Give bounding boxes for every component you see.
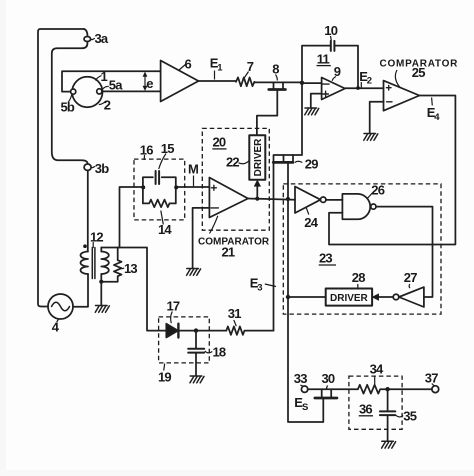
transformer 12 core <box>92 248 95 279</box>
leader 35 <box>396 415 403 417</box>
leader comparator 21 <box>210 216 218 234</box>
wire E3 bus: 29 gate down to comparator 21 output row, driver 28 output, transistor 30 gate <box>288 164 323 422</box>
wire transformer primary bottom to AC source 4 <box>73 274 88 307</box>
leader M <box>193 176 195 187</box>
svg-text:DRIVER: DRIVER <box>253 138 264 177</box>
leader 30 <box>326 386 329 390</box>
resistor 14 <box>143 200 176 208</box>
svg-text:e: e <box>146 76 153 91</box>
leader 1 <box>96 76 102 81</box>
leader 19 <box>164 364 165 371</box>
terminal 37 <box>432 386 439 393</box>
wire inverter 24 to NAND 26 input <box>326 199 343 201</box>
leader 34 <box>374 376 376 385</box>
comparator 21 <box>209 178 248 218</box>
leader comparator 25 <box>395 70 400 88</box>
capacitor 18 <box>195 331 197 348</box>
leader 37 <box>432 384 435 387</box>
svg-text:20: 20 <box>213 135 226 150</box>
leader 4 <box>57 319 59 322</box>
dashed box 23 <box>283 184 441 314</box>
wire hook from 3a down inner bus to 3b <box>52 42 88 164</box>
ground below comparator 25 <box>364 134 378 141</box>
electrode 5a <box>97 89 102 94</box>
resistor 7 <box>236 77 254 86</box>
svg-text:23: 23 <box>319 251 332 266</box>
svg-text:4: 4 <box>434 112 440 123</box>
leader 12 <box>92 242 94 248</box>
node junction dot RC right <box>174 185 178 189</box>
leader 18 <box>205 351 213 353</box>
svg-text:25: 25 <box>412 65 425 80</box>
svg-text:15: 15 <box>161 141 174 156</box>
leader 3a <box>91 38 95 39</box>
leader 24 <box>306 208 309 215</box>
driver 28 box <box>326 289 372 306</box>
leader 26 <box>367 193 373 199</box>
leader 17 <box>171 312 173 324</box>
diode 17 <box>166 324 178 338</box>
leader 33 <box>300 385 303 386</box>
svg-text:16: 16 <box>140 143 153 158</box>
svg-text:M: M <box>188 162 198 177</box>
wire top stub into terminal 3a <box>84 29 88 37</box>
ground below capacitor 35 <box>382 441 396 448</box>
dashed box 16 <box>134 159 185 220</box>
leader 5b <box>68 95 72 103</box>
svg-text:11: 11 <box>317 52 330 67</box>
svg-text:31: 31 <box>228 306 241 321</box>
svg-text:DRIVER: DRIVER <box>330 293 369 304</box>
svg-text:30: 30 <box>322 371 335 386</box>
svg-text:9: 9 <box>334 64 341 79</box>
leader 10 <box>330 36 333 41</box>
op-amp 9 <box>322 78 345 100</box>
wire comparator 25 output E4 down to NAND 26 lower input <box>329 96 455 245</box>
driver 22 box <box>249 135 265 180</box>
svg-text:8: 8 <box>272 62 279 77</box>
wire inverter 27 output to driver 28 with arrow <box>378 296 394 298</box>
leader 3b <box>91 166 95 167</box>
svg-text:22: 22 <box>226 155 239 170</box>
leader 14 <box>161 211 164 225</box>
wire transistor 8 gate to driver 22 <box>257 91 277 135</box>
svg-text:S: S <box>302 402 308 413</box>
node junction dot driver 22 input <box>255 197 259 201</box>
leader E4 <box>431 98 434 106</box>
svg-text:34: 34 <box>370 362 384 377</box>
capacitor 10 feedback loop wires <box>302 46 358 88</box>
AC source 4 <box>48 294 73 319</box>
wire driver 22 input stem with arrow <box>256 184 258 199</box>
capacitor 10 <box>331 41 335 51</box>
svg-text:36: 36 <box>359 402 372 417</box>
wire from 3b down to transformer primary <box>87 171 89 252</box>
dashed box 36 <box>349 376 402 429</box>
leader 13 <box>120 268 124 269</box>
svg-text:3a: 3a <box>95 31 109 46</box>
wire M node to comparator 21 plus input <box>176 186 210 188</box>
terminal 3a <box>84 37 91 42</box>
wire RC left node to transformer secondary top <box>120 187 143 248</box>
e signal arrow <box>144 76 146 88</box>
inverter 27 <box>399 287 424 307</box>
svg-text:10: 10 <box>324 23 337 38</box>
svg-text:3b: 3b <box>95 161 109 176</box>
node junction dot driver 28 output / E3 <box>286 295 290 299</box>
RC network box 14: rails <box>143 177 176 203</box>
leader 22 <box>239 161 250 164</box>
transformer 12 primary winding <box>81 252 89 275</box>
svg-text:5a: 5a <box>109 78 123 93</box>
ground below capacitor 18 <box>190 376 204 383</box>
wire secondary bottom to ground <box>100 282 102 305</box>
leader 15 <box>159 154 166 170</box>
svg-text:17: 17 <box>167 299 180 314</box>
ground below comparator 21 <box>187 269 201 276</box>
svg-text:6: 6 <box>185 57 192 72</box>
svg-text:29: 29 <box>305 157 318 172</box>
wire left bus from 3a top to source 4 <box>38 29 84 307</box>
wire driver 28 output to E3 bus <box>288 296 326 298</box>
NAND gate 26 <box>342 194 370 219</box>
transistor 29 <box>284 155 294 161</box>
leader 7 <box>245 72 249 78</box>
svg-text:37: 37 <box>425 371 438 386</box>
wire right electrode to amp 6 lower input <box>102 90 161 92</box>
svg-text:14: 14 <box>158 222 172 237</box>
wire transformer secondary row to diode drop <box>101 248 166 331</box>
wire comparator 21 minus input to ground <box>193 208 210 268</box>
svg-text:21: 21 <box>222 245 235 260</box>
wire comparator 25 minus input to ground <box>370 102 384 133</box>
svg-text:12: 12 <box>90 230 103 245</box>
svg-text:33: 33 <box>294 371 307 386</box>
leader 6 <box>179 64 187 71</box>
wire terminal 33 through transistor 30 to resistor 34 <box>308 388 358 390</box>
wire op-amp 9 plus input to ground <box>311 94 322 108</box>
leader 5a <box>102 86 109 90</box>
node E2 junction dot <box>356 86 360 90</box>
leader E2 <box>360 82 362 88</box>
node A junction dot <box>300 81 304 85</box>
svg-text:18: 18 <box>213 345 226 360</box>
leader E3 <box>265 284 276 287</box>
op-amp 6 <box>161 61 199 102</box>
transistor 30 <box>322 389 332 396</box>
wire node A to op-amp 9 <box>302 82 322 84</box>
resistor 31 <box>226 326 273 334</box>
transformer 12 secondary leads <box>100 248 102 282</box>
svg-text:35: 35 <box>403 409 416 424</box>
inverter 24 <box>295 187 321 214</box>
electrode 5b <box>71 89 76 94</box>
wire comparator 21 output to inverter 24 <box>248 199 295 200</box>
node junction dot diode output <box>194 328 198 332</box>
leader 9 <box>332 77 336 81</box>
svg-text:19: 19 <box>158 370 171 385</box>
svg-text:13: 13 <box>124 261 137 276</box>
node junction dot comparator 21 output / E3 <box>286 197 290 201</box>
transformer 12 secondary winding <box>101 252 109 275</box>
ground below transformer 12 <box>95 306 109 313</box>
sensor loop wire left electrode to amp 6 upper input <box>62 71 161 91</box>
svg-text:3: 3 <box>257 283 262 294</box>
svg-text:1: 1 <box>217 63 223 74</box>
svg-text:24: 24 <box>304 215 318 230</box>
comparator 25 <box>384 81 420 111</box>
capacitor 15 <box>156 171 160 184</box>
resistor 13 <box>101 248 121 282</box>
leader 29 <box>295 161 303 162</box>
terminal 33 <box>301 386 307 392</box>
svg-text:27: 27 <box>404 270 417 285</box>
resistor 34 <box>358 385 432 394</box>
wire diode 17 cathode to resistor 31 <box>178 330 226 332</box>
ground below op-amp 9 <box>305 108 319 115</box>
node junction dot resistor 34 output <box>385 387 389 391</box>
svg-text:2: 2 <box>367 76 372 87</box>
svg-text:7: 7 <box>247 59 254 74</box>
terminal 3b <box>84 164 91 170</box>
node junction dot secondary bottom <box>99 280 103 284</box>
leader 16 <box>143 155 145 160</box>
wire amp 6 output to resistor 7 <box>199 80 237 82</box>
leader 8 <box>276 75 278 81</box>
node junction dot RC left <box>141 185 145 189</box>
transistor 8 <box>274 82 284 88</box>
wire NAND 26 output to inverter 27 input <box>376 207 433 297</box>
svg-text:28: 28 <box>352 270 365 285</box>
leader 27 <box>408 284 411 288</box>
leader E1 <box>214 71 216 80</box>
wire op-amp 9 output / E2 to comparator 25 <box>345 87 384 89</box>
sensor pickup 1 circle <box>72 77 102 107</box>
wire resistor 7 to transistor 8 and node A <box>254 81 302 83</box>
svg-text:2: 2 <box>104 98 111 113</box>
capacitor 35 <box>387 389 389 410</box>
leader 28 <box>357 284 359 288</box>
phase dot transformer primary <box>83 244 87 248</box>
dashed box 19 <box>159 317 210 363</box>
wire node A down to transistor 29 and down to resistor 31 <box>274 83 303 331</box>
dashed box 20 <box>202 128 269 230</box>
svg-text:1: 1 <box>101 69 108 84</box>
svg-text:26: 26 <box>371 183 384 198</box>
svg-text:5b: 5b <box>61 100 75 115</box>
leader 31 <box>234 320 237 326</box>
leader 2 <box>99 101 106 105</box>
